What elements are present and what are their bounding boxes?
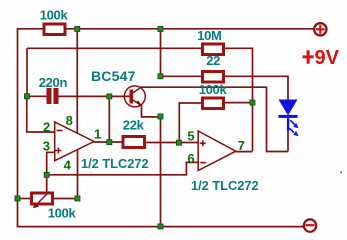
wire cap right to base [59, 95, 130, 97]
wire V+ to pin8 vertical [76, 29, 78, 133]
wire top rail node down to 22R row [160, 29, 162, 76]
svg-text:100k: 100k [40, 8, 69, 23]
node emitter junction [158, 114, 163, 119]
wire 10M left horizontal [27, 47, 201, 49]
node 22R row [158, 74, 163, 79]
potentiometer R6 100k [32, 192, 77, 221]
svg-text:22k: 22k [123, 118, 145, 133]
node top rail pin8 [75, 26, 80, 31]
resistor R5 22k [123, 118, 145, 148]
capacitor C1 220n [39, 75, 68, 104]
wire pin4 down to pot right node [77, 150, 79, 199]
transistor Q1 BC547 [91, 68, 145, 107]
wire bottom ground rail [17, 226, 303, 228]
op-amp U1A [43, 113, 149, 173]
wire 22k right to op2 pin5 [146, 142, 198, 144]
svg-text:2: 2 [43, 119, 50, 134]
resistor R1 100k top-left [40, 8, 69, 35]
svg-text:3: 3 [43, 138, 50, 153]
LED D1 [279, 100, 299, 137]
wire left vertical rail [17, 28, 19, 227]
wire 100k feedback left vertical [179, 103, 201, 143]
wire pot left stub [18, 198, 31, 200]
node op1 output [107, 140, 112, 145]
wire 22R left [161, 75, 202, 77]
terminal +9V supply [303, 23, 340, 69]
resistor R2 10M [197, 28, 223, 55]
wire cap left stub [27, 95, 47, 97]
wire op1 output to 22k [94, 141, 122, 143]
node pin5 junction [176, 140, 181, 145]
svg-text:100k: 100k [199, 82, 228, 97]
wire emitter to node [142, 106, 161, 117]
node pot right [75, 196, 80, 201]
svg-text:22: 22 [206, 53, 220, 68]
wire 22R right to LED anode [225, 76, 288, 99]
wire LED cathode down [287, 131, 289, 152]
op-amp U1B [187, 129, 258, 194]
svg-text:100k: 100k [48, 206, 77, 221]
resistor R3 22 [203, 53, 224, 82]
svg-text:1/2 TLC272: 1/2 TLC272 [191, 178, 259, 193]
wire pot right stub [54, 198, 78, 200]
node ground rail [158, 224, 163, 229]
wire collector run [141, 87, 288, 151]
wire node down to pin7 [252, 103, 254, 152]
svg-text:4: 4 [64, 158, 72, 173]
junction nodes [15, 26, 255, 229]
wire corner vertical to cap node [26, 48, 28, 96]
wire 10M right down to node [225, 48, 253, 102]
terminal 0V return [304, 219, 316, 231]
wire pin3 node to pin6 [47, 162, 199, 174]
svg-text:1: 1 [94, 126, 101, 141]
svg-text:220n: 220n [39, 75, 68, 90]
node top rail LED branch [158, 26, 163, 31]
resistor R4 100k feedback [199, 82, 228, 109]
wire base node down to output node [108, 96, 110, 142]
wire node down to pin2 [27, 96, 55, 132]
node cap left [24, 94, 29, 99]
node pin3 junction [44, 172, 49, 177]
svg-text:8: 8 [66, 113, 73, 128]
node base junction [107, 94, 112, 99]
svg-text:7: 7 [238, 138, 245, 153]
wire emitter node down to ground [160, 117, 162, 227]
stray dot artifact [340, 172, 342, 174]
svg-text:9V: 9V [315, 47, 340, 69]
svg-text:6: 6 [187, 151, 194, 166]
svg-text:BC547: BC547 [91, 68, 136, 84]
svg-text:5: 5 [187, 129, 194, 144]
node feedback junction [250, 100, 255, 105]
node pot left [15, 196, 20, 201]
wire 100k feedback right to node [225, 102, 253, 104]
svg-text:1/2 TLC272: 1/2 TLC272 [81, 156, 149, 171]
wire top rail right segment to + terminal [67, 28, 314, 30]
wire pin3 node down to pot wiper [46, 175, 48, 192]
wire top rail left segment [17, 28, 43, 30]
wire pin7 output [236, 151, 253, 153]
svg-text:10M: 10M [197, 28, 221, 43]
wire pin3 to lower node [47, 152, 55, 175]
